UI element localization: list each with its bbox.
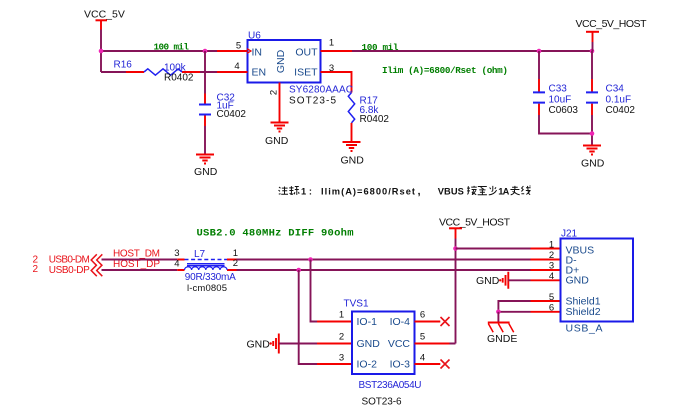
wire DM/DP pin stubs at J21: [531, 260, 561, 271]
svg-text:C0603: C0603: [549, 105, 579, 116]
svg-text:1A: 1A: [498, 186, 509, 196]
ground below C32: [194, 155, 218, 179]
svg-text:GND: GND: [581, 158, 605, 170]
svg-text:l-cm0805: l-cm0805: [187, 283, 227, 294]
port USB0-DM: [33, 254, 103, 265]
svg-text:IO-2: IO-2: [357, 359, 378, 371]
svg-text:C34: C34: [606, 84, 625, 95]
ground below R17: [341, 142, 365, 167]
note 1 text (chinese): [279, 185, 531, 197]
svg-text:U6: U6: [248, 31, 261, 42]
svg-text:L7: L7: [194, 249, 206, 260]
no-connect X on TVS pin 6: [415, 321, 441, 323]
svg-text:1: 1: [329, 38, 334, 49]
ground (bar style) at J21 pin 4: [476, 272, 508, 289]
svg-text:3: 3: [339, 353, 344, 364]
resistor R16: [114, 60, 201, 84]
svg-text:GND: GND: [275, 49, 287, 73]
svg-text:TVS1: TVS1: [344, 299, 369, 310]
wire OUT rail: [352, 50, 592, 52]
svg-text:GND: GND: [194, 166, 218, 178]
svg-text:J21: J21: [561, 229, 578, 240]
svg-text:USB_A: USB_A: [566, 323, 603, 335]
capacitor C32: [199, 92, 246, 126]
svg-text:4: 4: [549, 271, 554, 282]
glyph zhu: [279, 187, 289, 195]
svg-text:EN: EN: [252, 67, 267, 79]
svg-text:2: 2: [33, 264, 39, 275]
capacitor C34: [586, 51, 635, 116]
svg-text:VCC_5V_HOST: VCC_5V_HOST: [576, 18, 648, 30]
wire C32 column vertical: [204, 51, 206, 94]
svg-text:Ilim(A)=6800/Rset: Ilim(A)=6800/Rset: [321, 186, 415, 196]
svg-text:2: 2: [339, 332, 344, 343]
svg-text:4: 4: [174, 258, 179, 269]
resistor R17: [348, 93, 389, 143]
wire DP drop to TVS IO-2: [299, 270, 317, 364]
glyph an: [467, 186, 477, 195]
svg-text:R16: R16: [114, 60, 133, 71]
wire Shield1: [498, 301, 530, 312]
svg-text:1: 1: [339, 310, 344, 321]
svg-text:Shield2: Shield2: [566, 306, 601, 318]
svg-text:GNDE: GNDE: [487, 333, 517, 345]
svg-text:100 mil: 100 mil: [362, 42, 399, 53]
svg-text:ISET: ISET: [294, 67, 318, 79]
junction at VCC_5V: [99, 49, 104, 54]
svg-text:IO-4: IO-4: [390, 316, 411, 328]
svg-text:SOT23-5: SOT23-5: [289, 96, 336, 107]
svg-text:SY6280AAAC: SY6280AAAC: [289, 85, 353, 96]
wire C33 bottom to C34 bottom: [539, 115, 592, 134]
svg-text:GND: GND: [566, 275, 590, 287]
svg-text:4: 4: [234, 61, 239, 72]
port USB0-DP: [33, 264, 103, 276]
junction at C32 column top: [203, 49, 208, 54]
svg-text:IO-1: IO-1: [357, 316, 378, 328]
ground below U6 pin 2: [265, 123, 289, 148]
svg-text:USB0-DM: USB0-DM: [49, 255, 90, 266]
wire J21 GND pin: [508, 279, 530, 281]
junction shields: [496, 310, 501, 315]
glyph shao: [489, 186, 497, 195]
svg-text:3: 3: [549, 261, 554, 272]
svg-text:SOT23-6: SOT23-6: [362, 397, 402, 408]
svg-text:,: ,: [418, 185, 421, 197]
wire shield stem: [497, 312, 499, 323]
wire R16 to EN column: [200, 71, 217, 73]
svg-text:VCC_5V: VCC_5V: [84, 9, 125, 21]
svg-text:R0402: R0402: [360, 114, 390, 125]
glyph zou: [510, 186, 519, 195]
ground (bar style) at TVS pin 2: [247, 334, 279, 354]
svg-text:IN: IN: [252, 47, 263, 59]
wire DP row: [102, 269, 178, 271]
svg-text:100 mil: 100 mil: [154, 42, 190, 53]
power port VCC_5V: [84, 9, 125, 30]
earth ground GNDE: [487, 323, 517, 346]
svg-text:0.1uF: 0.1uF: [606, 94, 632, 105]
inductor L7 common-mode choke: [174, 248, 238, 294]
svg-text:10uF: 10uF: [549, 94, 572, 105]
transistor TVS1 (BST236A054U): [339, 299, 425, 408]
svg-text:GND: GND: [341, 155, 365, 167]
svg-text:C0402: C0402: [606, 105, 636, 116]
capacitor C33: [533, 51, 578, 116]
svg-text:GND: GND: [265, 135, 289, 147]
wire TVS VCC to host rail: [415, 343, 450, 345]
svg-text:GND: GND: [247, 339, 271, 351]
svg-text:GND: GND: [357, 338, 381, 350]
wire TVS GND pin: [279, 343, 317, 345]
svg-text:VBUS: VBUS: [438, 186, 464, 196]
wire DM row: [102, 259, 178, 261]
wire C34 bottom to ground: [591, 115, 593, 146]
junction VBUS: [453, 246, 458, 251]
svg-text:5: 5: [549, 292, 554, 303]
svg-text:VCC_5V_HOST: VCC_5V_HOST: [439, 217, 511, 229]
svg-text:5: 5: [420, 332, 425, 343]
svg-text:1: 1: [549, 240, 554, 251]
ground below C34: [581, 146, 605, 170]
svg-text:90R/330mA: 90R/330mA: [185, 272, 236, 283]
svg-text:2: 2: [549, 250, 554, 261]
svg-text:USB2.0 480MHz DIFF 90ohm: USB2.0 480MHz DIFF 90ohm: [197, 228, 354, 240]
no-connect X on TVS pin 4: [415, 363, 441, 365]
svg-text:Ilim (A)=6800/Rset (ohm): Ilim (A)=6800/Rset (ohm): [382, 65, 508, 76]
junction at C33: [537, 49, 542, 54]
svg-text:HOST_DM: HOST_DM: [113, 249, 160, 260]
svg-text:C0402: C0402: [217, 109, 247, 120]
wire Shield2: [498, 311, 530, 313]
wire DP row to J21: [237, 269, 531, 271]
wire R16 row left: [101, 71, 126, 73]
svg-text:GND: GND: [476, 275, 500, 287]
svg-text:BST236A054U: BST236A054U: [359, 380, 422, 391]
wire top rail to U6 IN: [101, 50, 217, 52]
svg-text:R0402: R0402: [164, 73, 194, 84]
wire VBUS row: [456, 248, 531, 250]
svg-text:USB0-DP: USB0-DP: [49, 265, 90, 276]
svg-text:1:: 1:: [301, 186, 312, 196]
power port VCC_5V_HOST (top right): [576, 18, 648, 51]
svg-text:5: 5: [236, 41, 241, 52]
glyph xian: [521, 186, 530, 195]
wire VCC_5V vertical: [100, 30, 102, 73]
svg-text:3: 3: [329, 63, 334, 74]
svg-text:OUT: OUT: [295, 47, 318, 59]
op-amp U6 (load switch SY6280): [217, 31, 353, 123]
svg-text:2: 2: [269, 90, 280, 95]
svg-text:4: 4: [420, 353, 425, 364]
wire DM row to J21: [237, 259, 531, 261]
svg-text:VCC: VCC: [388, 338, 411, 350]
junction at caps bottom: [590, 131, 595, 136]
power port VCC_5V_HOST (bottom): [439, 217, 511, 249]
svg-text:6: 6: [549, 303, 554, 314]
svg-text:IO-3: IO-3: [390, 359, 411, 371]
junction at C34 / VCC_5V_HOST: [590, 49, 595, 54]
glyph zhi: [478, 187, 487, 195]
svg-text:C33: C33: [549, 84, 568, 95]
wire C32 to ground: [204, 126, 206, 155]
junction DP drop: [296, 268, 301, 273]
svg-text:6: 6: [420, 310, 425, 321]
glyph shi: [289, 186, 299, 195]
wire DM drop to TVS IO-1: [311, 260, 318, 322]
connector J21 USB_A: [549, 229, 633, 335]
svg-text:HOST_DP: HOST_DP: [113, 259, 160, 270]
junction DM drop: [308, 257, 313, 262]
